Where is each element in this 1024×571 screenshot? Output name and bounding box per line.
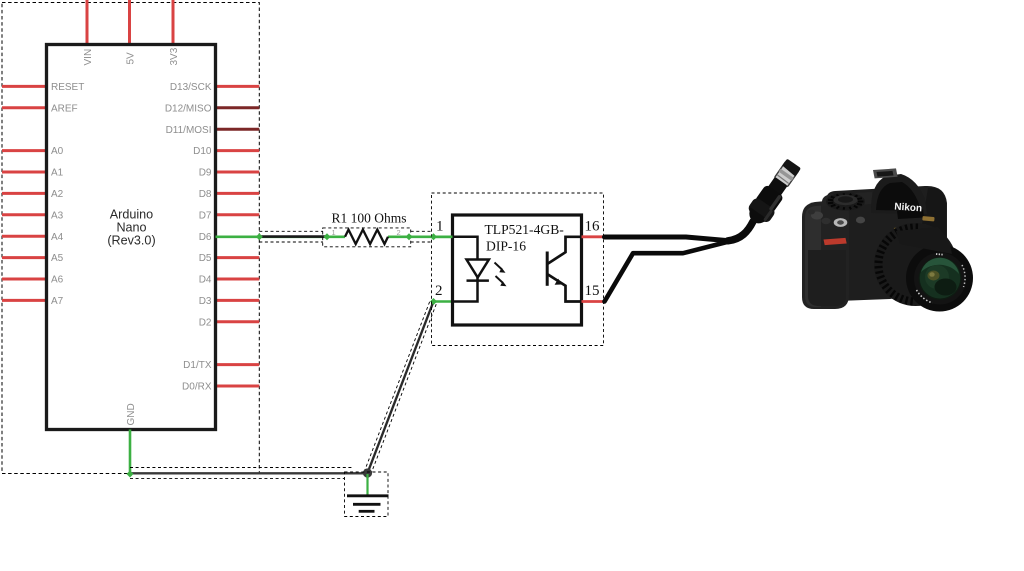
- svg-text:D12/MISO: D12/MISO: [165, 103, 212, 114]
- svg-text:A2: A2: [51, 189, 64, 200]
- svg-text:R1 100 Ohms: R1 100 Ohms: [332, 211, 407, 226]
- svg-text:Nikon: Nikon: [894, 202, 922, 215]
- svg-text:3V3: 3V3: [169, 47, 180, 65]
- svg-text:D4: D4: [199, 275, 212, 286]
- svg-text:16: 16: [585, 219, 601, 235]
- svg-text:D11/MOSI: D11/MOSI: [166, 125, 212, 136]
- svg-text:1: 1: [332, 228, 336, 237]
- svg-text:D5: D5: [199, 253, 212, 264]
- svg-text:TLP521-4GB-: TLP521-4GB-: [485, 222, 565, 237]
- svg-text:RESET: RESET: [51, 82, 84, 93]
- svg-text:A1: A1: [51, 168, 64, 179]
- svg-text:2: 2: [435, 283, 443, 299]
- svg-text:A7: A7: [51, 296, 64, 307]
- svg-text:A3: A3: [51, 210, 64, 221]
- svg-text:VIN: VIN: [83, 49, 94, 66]
- svg-text:1: 1: [436, 219, 444, 235]
- svg-text:A6: A6: [51, 275, 64, 286]
- svg-text:D8: D8: [199, 189, 212, 200]
- svg-text:AREF: AREF: [51, 103, 78, 114]
- svg-text:A5: A5: [51, 253, 64, 264]
- svg-text:Nano: Nano: [116, 221, 146, 235]
- svg-text:D9: D9: [199, 168, 212, 179]
- svg-text:D0/RX: D0/RX: [182, 382, 212, 393]
- svg-text:D1/TX: D1/TX: [183, 360, 212, 371]
- svg-text:(Rev3.0): (Rev3.0): [107, 234, 155, 248]
- svg-text:D7: D7: [199, 210, 212, 221]
- svg-text:A4: A4: [51, 232, 64, 243]
- svg-text:A0: A0: [51, 146, 64, 157]
- svg-text:5V: 5V: [126, 52, 137, 65]
- svg-text:D10: D10: [193, 146, 212, 157]
- svg-text:D3: D3: [199, 296, 212, 307]
- svg-text:D6: D6: [199, 232, 212, 243]
- svg-text:DIP-16: DIP-16: [486, 239, 526, 254]
- svg-text:D2: D2: [199, 317, 212, 328]
- svg-text:Arduino: Arduino: [110, 208, 153, 222]
- svg-text:GND: GND: [126, 403, 137, 425]
- svg-text:D13/SCK: D13/SCK: [170, 82, 212, 93]
- svg-text:15: 15: [585, 283, 600, 299]
- svg-text:2: 2: [397, 228, 401, 237]
